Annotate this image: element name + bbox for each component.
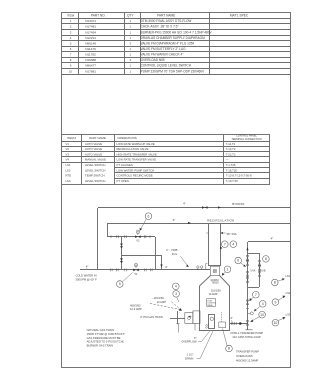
svg-text:N96477: N96477 bbox=[85, 64, 96, 68]
balloon item 6 bbox=[145, 213, 152, 220]
svg-text:QTY: QTY bbox=[127, 13, 134, 17]
pump column / gauge left tube bbox=[247, 242, 249, 330]
valve V1 (motorized) bbox=[133, 269, 139, 272]
wire vessel outlet bbox=[230, 323, 248, 325]
check valves lower pair bbox=[120, 258, 123, 263]
svg-text:FLG: FLG bbox=[172, 252, 177, 256]
actuator M for V1 bbox=[134, 263, 137, 268]
hatch at vessel bottom bbox=[205, 324, 209, 328]
balloon item 8 (pump) bbox=[226, 345, 233, 352]
svg-text:3: 3 bbox=[175, 292, 177, 296]
flange pair bbox=[231, 322, 233, 325]
valve on bypass bbox=[202, 206, 208, 209]
tick bbox=[87, 268, 89, 270]
svg-text:4": 4" bbox=[271, 236, 274, 240]
gas line bbox=[170, 318, 185, 320]
stack left edge bbox=[208, 223, 210, 265]
sight port in transition box bbox=[213, 270, 216, 273]
vent nub on neck bbox=[206, 264, 208, 270]
svg-text:OPERATIONS: OPERATIONS bbox=[117, 136, 136, 140]
flange pair bbox=[145, 269, 147, 272]
balloon item 5 bbox=[117, 281, 124, 288]
svg-text:V1: V1 bbox=[134, 272, 138, 276]
svg-text:LOW RATE WARM-UP VALVE: LOW RATE WARM-UP VALVE bbox=[117, 142, 155, 146]
balloon to LS2 bbox=[272, 299, 279, 306]
svg-text:CHCK-ASSY .38" ID X 7.5": CHCK-ASSY .38" ID X 7.5" bbox=[141, 25, 179, 29]
wire V2 valve train bbox=[108, 236, 155, 238]
leader balloon 3 bbox=[177, 297, 179, 302]
balloon item 8 (gauge) bbox=[263, 256, 270, 263]
svg-text:ADJUSTED TO 5 PSI DUTCHL: ADJUSTED TO 5 PSI DUTCHL bbox=[87, 340, 125, 344]
svg-text:BURNER GAS TRAIN: BURNER GAS TRAIN bbox=[87, 343, 114, 347]
svg-text:N10988: N10988 bbox=[85, 58, 96, 62]
wire cold water main 4in bbox=[80, 269, 210, 271]
svg-text:TERMINAL CONNECTION: TERMINAL CONNECTION bbox=[231, 138, 261, 141]
svg-text:GAS PRESSURE MUST BE: GAS PRESSURE MUST BE bbox=[87, 336, 121, 340]
wire riser to bypass bbox=[97, 208, 99, 270]
svg-text:T-1,T25: T-1,T25 bbox=[226, 163, 236, 167]
leader Y50B bbox=[181, 256, 189, 267]
wire bypass line 4in bbox=[98, 207, 290, 209]
svg-text:6": 6" bbox=[194, 336, 196, 340]
svg-text:V2: V2 bbox=[66, 147, 70, 151]
wire recirculation line 4in bbox=[108, 223, 290, 225]
svg-text:LEVEL SWITCH: LEVEL SWITCH bbox=[85, 163, 105, 167]
svg-text:300GPM @ 60° F: 300GPM @ 60° F bbox=[76, 278, 98, 282]
svg-text:1: 1 bbox=[227, 267, 229, 271]
balloon item 4 bbox=[230, 241, 237, 248]
flange pair bbox=[117, 235, 119, 238]
svg-text:4": 4" bbox=[183, 202, 186, 206]
leader balloon 5 bbox=[123, 273, 133, 282]
valve lower column 2 bbox=[246, 321, 249, 326]
valve on right tube 3 bbox=[258, 272, 261, 277]
dashed leader 115V bbox=[172, 302, 180, 309]
butterfly valve solid on outlet bbox=[239, 322, 242, 325]
svg-text:DRAIN: DRAIN bbox=[185, 356, 193, 360]
svg-text:PART NAME: PART NAME bbox=[157, 13, 175, 17]
svg-text:T-16,T20: T-16,T20 bbox=[226, 168, 238, 172]
svg-text:12.3 AMP: 12.3 AMP bbox=[130, 307, 142, 311]
svg-text:LS1: LS1 bbox=[66, 163, 71, 167]
svg-text:ITEM: ITEM bbox=[67, 13, 75, 17]
svg-text:AUTO VALVE: AUTO VALVE bbox=[85, 142, 102, 146]
flange tick on column bbox=[246, 307, 249, 309]
valve on left tube 2 bbox=[246, 261, 249, 266]
svg-text:10: 10 bbox=[260, 313, 264, 317]
svg-text:ITEM #: ITEM # bbox=[67, 136, 77, 140]
svg-text:TEMP SWITCH: TEMP SWITCH bbox=[85, 174, 105, 178]
flow arrow recirc bbox=[188, 222, 191, 224]
svg-text:T5000: T5000 bbox=[211, 281, 219, 285]
svg-text:10: 10 bbox=[274, 321, 278, 325]
svg-text:36" DIA: 36" DIA bbox=[226, 232, 236, 236]
svg-text:M: M bbox=[135, 265, 137, 267]
svg-text:N12221: N12221 bbox=[85, 36, 96, 40]
valve on left tube 1 bbox=[246, 256, 249, 261]
svg-text:T-14,T2: T-14,T2 bbox=[226, 147, 236, 151]
level switch box in vessel bbox=[219, 322, 226, 328]
svg-text:AUTO VALVE: AUTO VALVE bbox=[85, 147, 102, 151]
svg-text:460/3/60: 460/3/60 bbox=[130, 303, 141, 307]
flange bbox=[149, 235, 151, 238]
svg-text:LOW RATE TRANSFER VALVE: LOW RATE TRANSFER VALVE bbox=[117, 158, 157, 162]
dashed probe line bbox=[221, 312, 223, 322]
svg-text:7: 7 bbox=[255, 293, 257, 297]
gauge right tube bbox=[259, 253, 261, 287]
svg-text:CONTROL LIQUID LEVEL SWITCH: CONTROL LIQUID LEVEL SWITCH bbox=[141, 64, 192, 68]
control panel label box bbox=[207, 299, 216, 307]
svg-text:210 GPM-70TDH 10HP: 210 GPM-70TDH 10HP bbox=[233, 335, 261, 339]
balloon item 10 (pump col) bbox=[259, 311, 266, 318]
svg-text:N17881: N17881 bbox=[85, 69, 96, 73]
svg-text:4": 4" bbox=[230, 316, 233, 320]
balloon to LS1 bbox=[272, 279, 279, 286]
svg-text:CONTROLS RECIRC MODE: CONTROLS RECIRC MODE bbox=[117, 174, 153, 178]
svg-text:PART NO.: PART NO. bbox=[91, 13, 106, 17]
svg-text:DOW-1 TRANSFER PUMP: DOW-1 TRANSFER PUMP bbox=[231, 331, 264, 335]
flange bbox=[110, 235, 112, 238]
wire check valve column bbox=[121, 237, 123, 270]
leader balloon 7 bbox=[221, 247, 223, 249]
leader balloon 1 bbox=[222, 272, 225, 275]
svg-text:AUTO VALVE: AUTO VALVE bbox=[85, 152, 102, 156]
svg-text:VALVE FM WAFER CHECK 4": VALVE FM WAFER CHECK 4" bbox=[141, 53, 184, 57]
actuator M for V2 bbox=[136, 230, 139, 235]
burner housing small bbox=[185, 313, 193, 324]
svg-text:DTM-5000 FINAL ASSY DTS-FLOW: DTM-5000 FINAL ASSY DTS-FLOW bbox=[141, 19, 192, 23]
svg-text:N17481: N17481 bbox=[85, 25, 96, 29]
svg-text:V1: V1 bbox=[66, 142, 70, 146]
wire mid header drop bbox=[161, 255, 163, 270]
balloon item 7 (pump col) bbox=[253, 291, 260, 298]
svg-text:8: 8 bbox=[228, 347, 230, 351]
svg-text:9: 9 bbox=[274, 300, 276, 304]
flange pair bbox=[117, 269, 119, 272]
svg-text:6: 6 bbox=[148, 214, 150, 218]
balloon item 4 (pump col) bbox=[259, 301, 266, 308]
gauge bottom connector bbox=[248, 287, 259, 289]
gauge top connector bbox=[248, 253, 259, 255]
flange pair bbox=[125, 269, 127, 272]
svg-text:T-19,T-56: T-19,T-56 bbox=[226, 179, 238, 183]
svg-text:N11782: N11782 bbox=[85, 53, 96, 57]
svg-text:4: 4 bbox=[262, 302, 264, 306]
border frame bbox=[62, 13, 291, 368]
svg-text:7: 7 bbox=[224, 242, 226, 246]
vessel DOW T5000 bbox=[200, 276, 230, 331]
svg-text:BURNER-PKG 15000 AH SCI 100-4: BURNER-PKG 15000 AH SCI 100-4 7 1.5HP 48… bbox=[141, 30, 213, 34]
svg-text:4: 4 bbox=[175, 284, 177, 288]
svg-text:LEVEL SWITCH: LEVEL SWITCH bbox=[85, 168, 105, 172]
svg-text:PANEL: PANEL bbox=[207, 304, 213, 307]
svg-text:V2: V2 bbox=[136, 239, 140, 243]
svg-text:LS1: LS1 bbox=[285, 274, 290, 278]
flow arrow down bbox=[160, 264, 162, 267]
svg-text:V3: V3 bbox=[66, 152, 70, 156]
wire V2 branch drop bbox=[107, 223, 109, 237]
svg-text:COLD WATER IN: COLD WATER IN bbox=[76, 274, 97, 278]
svg-text:T-22,T2: T-22,T2 bbox=[226, 152, 236, 156]
svg-text:15000 FT³/HR @ 1000 BTU/FT³: 15000 FT³/HR @ 1000 BTU/FT³ bbox=[87, 332, 125, 336]
transfer pump bbox=[246, 329, 253, 331]
svg-text:PUMP 230GPM 70' TDH 5HP-ODP 23: PUMP 230GPM 70' TDH 5HP-ODP 230/460V bbox=[141, 69, 206, 73]
svg-text:MAT'L SPEC: MAT'L SPEC bbox=[230, 13, 249, 17]
svg-text:M: M bbox=[137, 232, 139, 234]
svg-text:10 AMP: 10 AMP bbox=[208, 292, 217, 296]
svg-text:DRAW-AS CHAMBER SUPPLY DIAPHRA: DRAW-AS CHAMBER SUPPLY DIAPHRAGM bbox=[141, 36, 205, 40]
svg-text:460/3/60 12.3AMP: 460/3/60 12.3AMP bbox=[236, 359, 258, 363]
balloon to LS3 bbox=[272, 319, 279, 326]
svg-text:OVERLOADS: OVERLOADS bbox=[236, 354, 253, 358]
svg-text:NATURAL GAS TRAIN: NATURAL GAS TRAIN bbox=[87, 328, 114, 332]
svg-text:RTD: RTD bbox=[66, 174, 72, 178]
burner arrow bbox=[188, 316, 192, 318]
burner housing large bbox=[193, 311, 200, 324]
svg-text:LS2: LS2 bbox=[286, 291, 291, 295]
svg-text:4": 4" bbox=[86, 265, 89, 269]
svg-text:8: 8 bbox=[265, 257, 267, 261]
gauge taps at vessel inlet bbox=[197, 266, 203, 270]
leader 36DIA bbox=[221, 232, 225, 234]
svg-text:8: 8 bbox=[274, 281, 276, 285]
parts list table (top) bbox=[62, 18, 290, 20]
valve on left tube 3 bbox=[246, 272, 249, 277]
svg-text:V4: V4 bbox=[66, 158, 70, 162]
svg-text:115/1/60: 115/1/60 bbox=[154, 296, 165, 300]
burner support bbox=[177, 311, 179, 324]
svg-text:PT OPEN: PT OPEN bbox=[117, 179, 129, 183]
gas cock diamond bbox=[187, 317, 191, 320]
svg-text:VALVE FM DIAPHRAGM 4" FLG 125#: VALVE FM DIAPHRAGM 4" FLG 125# bbox=[141, 41, 195, 45]
flange pair bbox=[125, 235, 127, 238]
svg-text:1 1/2": 1 1/2" bbox=[187, 353, 194, 357]
gauge line 4in to frame bbox=[248, 241, 290, 243]
svg-text:PART NAME: PART NAME bbox=[89, 136, 106, 140]
svg-text:10 AMP: 10 AMP bbox=[157, 300, 167, 304]
svg-text:½VB: ½VB bbox=[260, 268, 266, 272]
balloon item 1 bbox=[224, 266, 231, 273]
svg-text:T-12-8,T-12-9,T-50-8: T-12-8,T-12-9,T-50-8 bbox=[226, 174, 252, 178]
flow arrow bypass bbox=[218, 206, 221, 208]
svg-text:N11476: N11476 bbox=[85, 47, 96, 51]
flange pair bbox=[151, 269, 153, 272]
vessel top flange band bbox=[208, 265, 221, 267]
leader balloon 6 bbox=[140, 219, 146, 230]
svg-text:OVERLOAD N55: OVERLOAD N55 bbox=[141, 58, 165, 62]
svg-text:LS3: LS3 bbox=[66, 179, 71, 183]
svg-text:N13471: N13471 bbox=[85, 19, 96, 23]
balloon item 3 bbox=[173, 291, 180, 298]
svg-text:BYPASS: BYPASS bbox=[232, 202, 244, 206]
flange pair bbox=[144, 235, 146, 238]
balloon item 6 (gauge) bbox=[235, 257, 242, 264]
flow arrow up bbox=[246, 247, 248, 250]
valve on right tube 2 bbox=[258, 266, 261, 271]
svg-text:4: 4 bbox=[232, 242, 234, 246]
valve lower column 1 bbox=[246, 300, 249, 305]
leader to balloon 8 pump bbox=[223, 329, 228, 346]
valve on right tube 1 bbox=[258, 261, 261, 266]
flange pair bbox=[111, 269, 113, 272]
svg-text:LEVEL SWITCH: LEVEL SWITCH bbox=[85, 179, 105, 183]
svg-text:N17454: N17454 bbox=[85, 30, 96, 34]
balloon item 4 (burner area) bbox=[173, 283, 180, 290]
svg-text:10: 10 bbox=[69, 69, 73, 73]
tick stack left bbox=[206, 232, 208, 234]
valve on left tube 4 bbox=[246, 278, 249, 283]
wire V2 outlet drop bbox=[155, 237, 157, 270]
svg-text:RECIRCULATION VALVE: RECIRCULATION VALVE bbox=[117, 147, 149, 151]
svg-text:TRANSFER PUMP: TRANSFER PUMP bbox=[236, 350, 259, 354]
svg-text:6: 6 bbox=[237, 259, 239, 263]
svg-text:4": 4" bbox=[173, 218, 176, 222]
vessel transition box bbox=[211, 266, 220, 275]
svg-text:PT GAUGES: PT GAUGES bbox=[117, 163, 133, 167]
svg-text:5: 5 bbox=[119, 282, 121, 286]
svg-text:LS3: LS3 bbox=[286, 313, 291, 317]
svg-text:4" - Y50B: 4" - Y50B bbox=[166, 248, 178, 252]
svg-text:OVERFLOW: OVERFLOW bbox=[181, 340, 197, 344]
gauge circle on column bbox=[248, 312, 251, 314]
equipment table (middle) bbox=[62, 135, 270, 185]
svg-text:N96148: N96148 bbox=[85, 41, 96, 45]
valve V2 (motorized) bbox=[135, 235, 141, 238]
svg-text:HIGH RATE TRANSFER VALVE: HIGH RATE TRANSFER VALVE bbox=[117, 152, 157, 156]
svg-text:116/1/60: 116/1/60 bbox=[211, 288, 221, 292]
stack right edge bbox=[220, 223, 222, 265]
wire mid header bbox=[121, 255, 162, 257]
svg-text:RECIRCULATION: RECIRCULATION bbox=[207, 219, 234, 223]
svg-text:4": 4" bbox=[165, 265, 168, 269]
svg-text:LS2: LS2 bbox=[66, 168, 71, 172]
svg-text:½VA: ½VA bbox=[250, 268, 255, 272]
balloon item 7 bbox=[222, 241, 229, 248]
svg-text:VALVE FM BUTTERFLY 2" LUG: VALVE FM BUTTERFLY 2" LUG bbox=[141, 47, 187, 51]
svg-text:LOW WATER PUMP SWITCH: LOW WATER PUMP SWITCH bbox=[117, 168, 155, 172]
svg-text:.3" PSI GAS TRAIN: .3" PSI GAS TRAIN bbox=[139, 315, 163, 319]
svg-text:—: — bbox=[226, 158, 229, 162]
sight glass column bbox=[209, 315, 215, 329]
check valves upper pair bbox=[120, 244, 123, 249]
svg-text:T-11,T2: T-11,T2 bbox=[226, 142, 236, 146]
dashed leader 460V bbox=[150, 304, 182, 310]
svg-text:MANUAL VALVE: MANUAL VALVE bbox=[85, 158, 106, 162]
